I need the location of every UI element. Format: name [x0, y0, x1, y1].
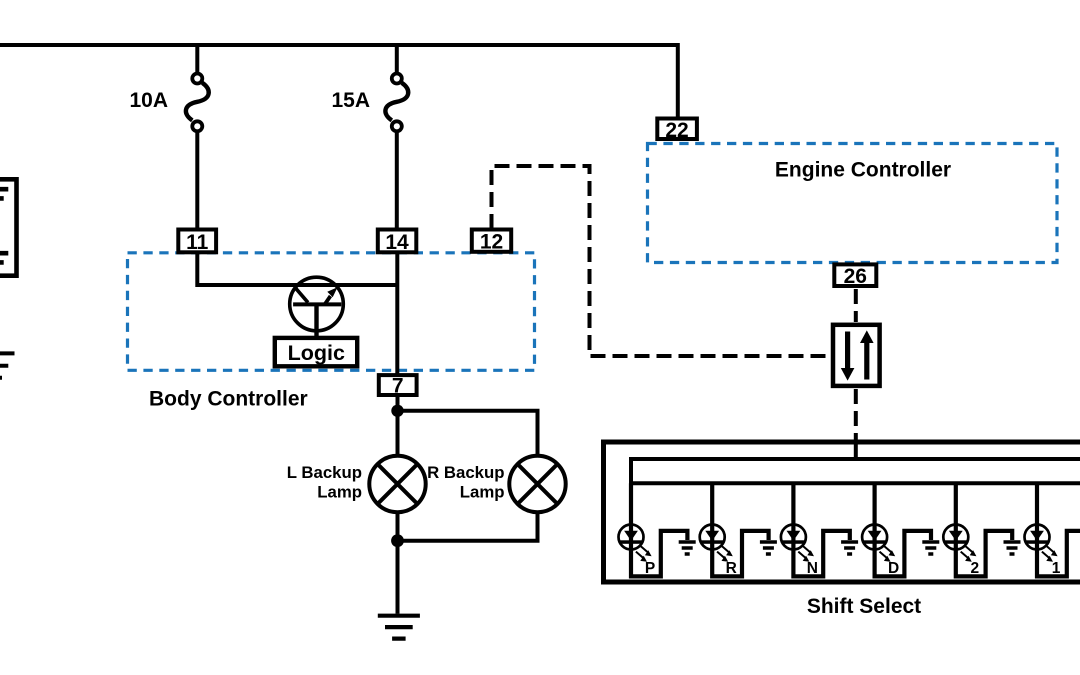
svg-text:Engine Controller: Engine Controller [775, 159, 951, 182]
svg-text:L Backup: L Backup [287, 463, 362, 482]
svg-text:11: 11 [186, 231, 209, 254]
svg-text:P: P [645, 560, 655, 577]
svg-text:R Backup: R Backup [427, 463, 504, 482]
svg-text:Body Controller: Body Controller [149, 387, 308, 410]
svg-text:1: 1 [1052, 560, 1061, 577]
svg-text:14: 14 [385, 231, 409, 254]
svg-text:D: D [888, 560, 899, 577]
svg-text:12: 12 [480, 231, 503, 254]
svg-text:Shift Select: Shift Select [807, 595, 921, 618]
svg-text:2: 2 [970, 560, 979, 577]
svg-text:26: 26 [844, 265, 867, 288]
svg-text:Lamp: Lamp [460, 482, 505, 501]
svg-text:R: R [726, 560, 737, 577]
svg-text:Logic: Logic [288, 341, 345, 365]
svg-text:7: 7 [392, 375, 404, 398]
svg-text:15A: 15A [331, 89, 370, 112]
svg-text:22: 22 [665, 119, 688, 142]
svg-text:Lamp: Lamp [317, 482, 362, 501]
svg-text:N: N [807, 560, 818, 577]
svg-text:10A: 10A [129, 89, 168, 112]
